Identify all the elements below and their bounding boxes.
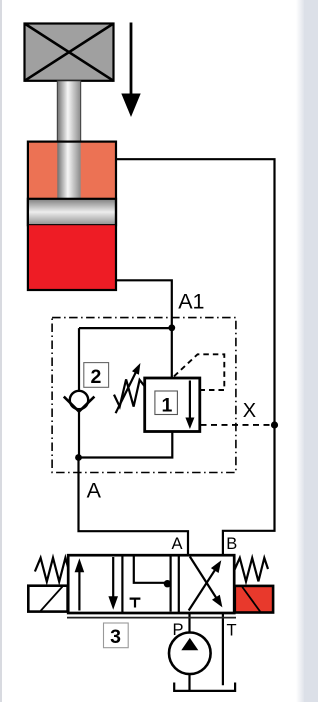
cylinder piston rod xyxy=(57,81,80,201)
directional valve 3 body xyxy=(68,555,234,613)
wire: node A to directional valve port A xyxy=(79,458,189,557)
valve 3 right solenoid (energised, red) xyxy=(235,586,273,613)
wire: pump outlet to tank xyxy=(188,674,190,692)
check valve 2 designator label xyxy=(84,363,109,388)
wire: manifold top line A1 to check valve 2 xyxy=(79,327,172,329)
svg-text:A: A xyxy=(87,479,102,503)
valve 3 left position: parallel flow arrows xyxy=(75,557,118,611)
page background band right xyxy=(296,0,305,702)
counterbalance valve 1 body xyxy=(145,378,200,432)
pilot line (dashed) to valve 1 spring chamber xyxy=(174,354,224,390)
directional valve 3 designator label xyxy=(104,623,129,648)
load mass W (weight on rod) xyxy=(25,24,114,81)
wire: left branch through check valve 2 xyxy=(78,328,80,457)
wire: cylinder piston side to node A1 xyxy=(116,280,172,378)
svg-text:2: 2 xyxy=(90,366,101,388)
wire: manifold bottom line to valve 1 outlet xyxy=(79,430,173,458)
node A1 junction dot xyxy=(168,324,175,331)
wire: cylinder rod side to valve port B / node X (right main line) xyxy=(116,159,275,556)
node X junction dot xyxy=(271,421,278,428)
cylinder (double acting, load holding) xyxy=(28,142,116,290)
pilot port X line (dashed) xyxy=(201,424,275,426)
valve 3 right return spring xyxy=(235,558,268,582)
svg-text:X: X xyxy=(243,400,256,422)
tank xyxy=(174,683,235,691)
svg-text:1: 1 xyxy=(161,395,172,417)
enclosure (manifold) dash-dot boundary xyxy=(52,318,236,473)
svg-text:A: A xyxy=(171,535,182,553)
valve 3 left solenoid xyxy=(28,586,67,612)
check valve 2 xyxy=(64,391,95,412)
counterbalance valve 1 adjustable spring xyxy=(114,363,145,413)
svg-text:A1: A1 xyxy=(178,290,204,314)
valve 3 centre position: A,B to T, P blocked xyxy=(130,557,171,612)
valve 3 right position: crossed flow arrows xyxy=(189,557,223,611)
svg-text:B: B xyxy=(226,535,237,553)
wire: valve port P to pump xyxy=(188,611,190,634)
load direction arrow (lowering) xyxy=(121,23,140,118)
directional valve 3 subplate line xyxy=(67,617,236,619)
valve 3 left return spring xyxy=(35,558,69,582)
wire: valve port T to tank xyxy=(222,611,224,685)
page edge sliver left xyxy=(0,0,2,702)
svg-text:T: T xyxy=(226,622,236,640)
svg-text:3: 3 xyxy=(110,626,121,648)
pump xyxy=(169,633,211,675)
node A junction dot xyxy=(75,454,82,461)
